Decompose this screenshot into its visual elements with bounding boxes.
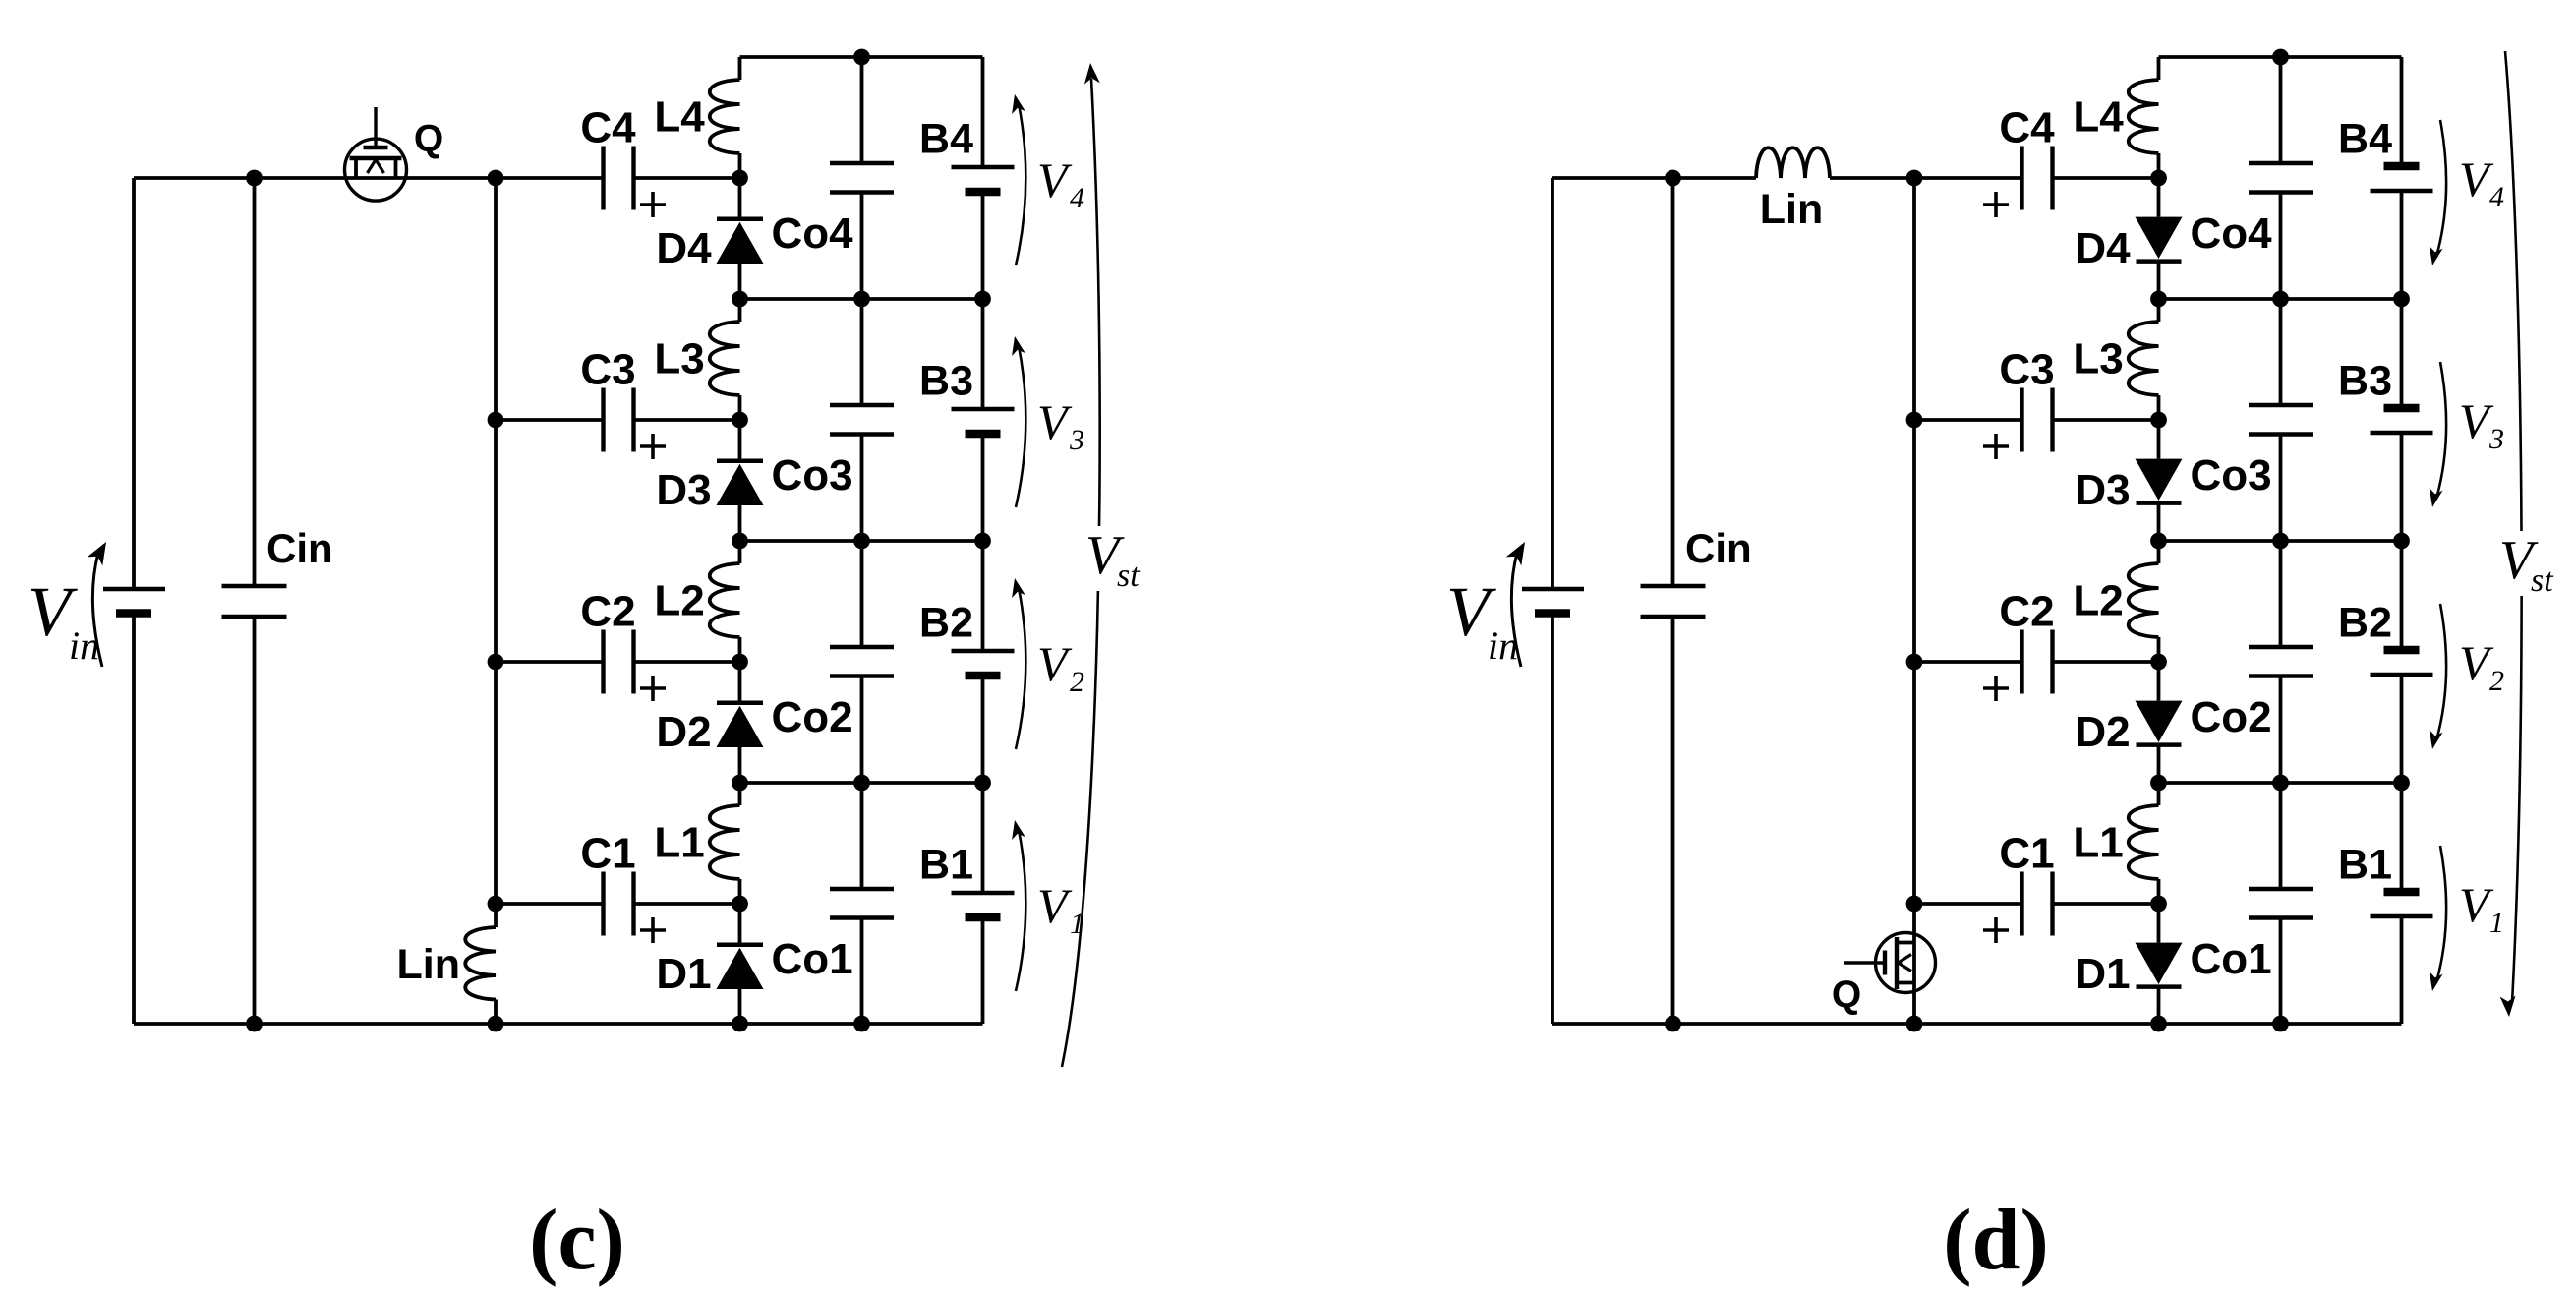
wire (d) Vin trunk upper — [1551, 178, 1554, 589]
arrow V4 (d) — [2436, 120, 2446, 257]
plus sign C2 (c) — [640, 686, 666, 690]
diode D3 (c) triangle — [717, 464, 764, 505]
node (d) row2 at Co — [2272, 533, 2289, 550]
diode D2 (d) triangle — [2136, 701, 2183, 742]
svg-text:C4: C4 — [580, 104, 636, 152]
node (d) row2 at LD — [2150, 533, 2167, 550]
wire (c) Co trunk seg above Co2 — [860, 435, 864, 648]
battery Vin (d) short plate — [1535, 609, 1570, 618]
wire (c) row st to C4 — [496, 176, 604, 180]
diode D2 (c) triangle — [717, 706, 764, 747]
wire (c) C1 row right — [634, 902, 740, 906]
inductor Lin (c) — [465, 927, 496, 1000]
svg-text:Co1: Co1 — [2190, 935, 2271, 983]
capacitor Cin (c) plates — [222, 584, 287, 588]
wire (d) D2-node — [2157, 745, 2161, 783]
transistor Q (d) circle — [1876, 933, 1936, 993]
svg-text:D3: D3 — [656, 466, 711, 514]
svg-text:D4: D4 — [656, 224, 712, 272]
battery B2 (d) long plate — [2371, 673, 2433, 677]
capacitor C3 (c) plates — [601, 388, 605, 452]
node (d) row1 at LD — [2150, 291, 2167, 308]
node (c) bottom at Co — [853, 1016, 870, 1032]
battery B2 (d) short plate — [2384, 646, 2420, 655]
plus sign C2 (d) — [1983, 686, 2009, 690]
svg-text:L2: L2 — [2073, 577, 2123, 625]
wire (d) node row 1 — [2159, 297, 2402, 301]
node (d) row2 at B — [2393, 533, 2410, 550]
wire (c) D3-node — [738, 505, 742, 541]
node (c) stage trunk top — [488, 170, 504, 187]
svg-text:(d): (d) — [1943, 1193, 2049, 1288]
wire (d) Cin trunk upper — [1671, 178, 1675, 586]
wire (d) C1 row right — [2053, 902, 2159, 906]
wire (c) D2-node — [738, 747, 742, 783]
arrow V3 (d) — [2436, 362, 2446, 499]
wire (c) bottom rail — [134, 1022, 983, 1026]
svg-text:Co4: Co4 — [2190, 209, 2272, 258]
transistor Q (d) gate bar — [1883, 951, 1887, 975]
wire (d) node row 3 — [2159, 781, 2402, 785]
capacitor C2 (c) plates — [601, 630, 605, 694]
battery B1 (d) long plate — [2371, 914, 2433, 918]
svg-text:st: st — [1117, 558, 1141, 594]
battery B4 (c) long plate — [952, 165, 1015, 169]
wire (c) C2 row right — [634, 660, 740, 664]
wire (d) L1-D1 — [2157, 879, 2161, 943]
svg-text:Q: Q — [414, 118, 443, 160]
inductor L1 (c) — [710, 805, 740, 879]
diode D4 (c) triangle — [717, 222, 764, 264]
svg-text:L3: L3 — [654, 335, 704, 383]
transistor Q (d) gate lead — [1844, 961, 1885, 964]
node (d) row3 at LD — [2150, 775, 2167, 792]
wire (c) B trunk bottom seg — [981, 917, 985, 1024]
diode D3 (d) cathode bar — [2137, 501, 2182, 505]
wire (d) L4-D4 — [2157, 153, 2161, 217]
node (c) bottom at Cin — [246, 1016, 263, 1032]
svg-text:B3: B3 — [919, 358, 973, 405]
svg-text:4: 4 — [2489, 181, 2504, 213]
wire (c) Co trunk seg above Co4 — [860, 57, 864, 163]
node (c) row2 at LD — [732, 533, 748, 550]
node (d) row1 at Co — [2272, 291, 2289, 308]
svg-text:D2: D2 — [2075, 708, 2130, 756]
capacitor Co1 (c) plates — [830, 887, 894, 891]
battery B1 (c) long plate — [952, 891, 1015, 895]
node (c) C2 row at stage trunk — [488, 654, 504, 671]
plus sign C4 (c) — [640, 203, 666, 206]
svg-text:B3: B3 — [2338, 358, 2392, 405]
transistor Q (c) circle — [345, 139, 407, 201]
arrow V2 (d) — [2436, 604, 2446, 740]
battery B4 (d) long plate — [2371, 189, 2433, 193]
capacitor C4 (d) plates — [2020, 147, 2023, 210]
svg-text:B1: B1 — [2338, 842, 2392, 889]
node (d) row1 at B — [2393, 291, 2410, 308]
wire (c) D1-node — [738, 989, 742, 1025]
battery B3 (c) long plate — [952, 407, 1015, 411]
svg-text:2: 2 — [2489, 665, 2504, 697]
diode D4 (d) cathode bar — [2137, 259, 2182, 264]
svg-text:C1: C1 — [1999, 830, 2054, 878]
svg-text:L4: L4 — [654, 93, 705, 142]
inductor Lin (d) — [1756, 147, 1830, 178]
svg-text:B2: B2 — [919, 600, 973, 647]
svg-text:C4: C4 — [1999, 104, 2055, 152]
svg-text:C1: C1 — [580, 830, 635, 878]
wire (c) B trunk seg above B2 — [981, 434, 985, 651]
transistor Q (c) source stub — [354, 158, 358, 178]
wire (c) B trunk seg above B3 — [981, 192, 985, 409]
node (c) row3 at B — [974, 775, 991, 792]
wire (d) trunk node-L3 — [2157, 299, 2161, 322]
arrow V2 (c) — [1016, 588, 1025, 749]
battery B3 (c) short plate — [966, 430, 1001, 439]
node (d) bottom at Cin — [1665, 1016, 1681, 1032]
wire (d) LD trunk top — [2157, 57, 2161, 80]
svg-text:L3: L3 — [2073, 335, 2123, 383]
svg-text:D1: D1 — [656, 950, 711, 998]
wire (d) input row left — [1552, 176, 1756, 180]
wire (c) stage trunk — [494, 178, 498, 927]
svg-text:Cin: Cin — [1685, 525, 1752, 571]
arrow V1 (d) — [2436, 846, 2446, 982]
wire (c) C3 row left — [496, 418, 604, 422]
node (c) row3 at LD — [732, 775, 748, 792]
wire (c) L3-D3 — [738, 395, 742, 463]
battery Vin (c) short plate — [116, 609, 151, 618]
node (d) C3 row at LD trunk — [2150, 412, 2167, 429]
capacitor C3 (d) plates — [2020, 388, 2023, 452]
transistor Q (d) body arrow — [1899, 955, 1912, 964]
node (d) bottom at LD — [2150, 1016, 2167, 1032]
wire (c) Cin trunk lower — [253, 617, 257, 1024]
svg-text:Cin: Cin — [266, 525, 333, 571]
wire (d) D3-node — [2157, 503, 2161, 541]
svg-text:L4: L4 — [2073, 93, 2124, 142]
svg-text:B1: B1 — [919, 842, 973, 889]
node (d) C4 row at LD trunk — [2150, 170, 2167, 187]
wire (c) Cin trunk upper — [253, 178, 257, 586]
plus sign C3 (d) — [1983, 444, 2009, 448]
inductor L1 (d) — [2129, 805, 2159, 879]
node (c) C1 row at stage trunk — [488, 896, 504, 913]
node (d) top rail at Co — [2272, 49, 2289, 66]
wire (c) Co trunk seg above Co3 — [860, 193, 864, 406]
node (d) bottom at Co — [2272, 1016, 2289, 1032]
wire (c) node row 2 — [740, 539, 983, 543]
arrow Vst (c) — [1062, 79, 1100, 1067]
wire (d) Co trunk seg above Co2 — [2279, 435, 2283, 648]
node (d) stage trunk top — [1906, 170, 1923, 187]
transistor Q (c) gate lead — [374, 107, 377, 147]
wire (c) stage trunk below Lin — [494, 1000, 498, 1025]
svg-text:2: 2 — [1070, 666, 1084, 698]
wire (c) B trunk seg above B1 — [981, 676, 985, 893]
svg-text:L2: L2 — [654, 577, 704, 625]
battery B2 (c) long plate — [952, 649, 1015, 653]
svg-text:C3: C3 — [580, 346, 635, 394]
wire (d) L2-D2 — [2157, 637, 2161, 701]
node (c) bottom at LD — [732, 1016, 748, 1032]
svg-text:Lin: Lin — [397, 941, 460, 988]
transistor Q (c) drain stub — [394, 158, 398, 178]
svg-text:1: 1 — [2489, 907, 2504, 939]
svg-text:3: 3 — [2488, 423, 2504, 455]
wire (d) B trunk seg above B2 — [2400, 433, 2404, 650]
wire (c) Co trunk seg above Co1 — [860, 677, 864, 890]
node (d) C2 row at LD trunk — [2150, 654, 2167, 671]
wire (c) trunk node-L2 — [738, 541, 742, 563]
battery B4 (d) short plate — [2384, 162, 2420, 171]
transistor Q (d) channel bar — [1895, 937, 1899, 989]
battery B2 (c) short plate — [966, 672, 1001, 680]
node (d) C3 row at stage trunk — [1906, 412, 1923, 429]
capacitor Co3 (c) plates — [830, 403, 894, 407]
svg-text:D4: D4 — [2075, 224, 2131, 272]
transistor Q (d) source stub — [1897, 981, 1914, 985]
capacitor Co3 (d) plates — [2249, 403, 2313, 407]
battery B3 (d) long plate — [2371, 431, 2433, 435]
wire (c) B trunk seg above B4 — [981, 57, 985, 167]
wire (c) C2 row left — [496, 660, 604, 664]
diode D1 (d) cathode bar — [2137, 984, 2182, 989]
capacitor C4 (c) plates — [601, 147, 605, 210]
wire (d) B trunk seg above B3 — [2400, 191, 2404, 408]
inductor L4 (d) — [2129, 80, 2159, 153]
node (d) bottom at stage trunk — [1906, 1016, 1923, 1032]
svg-text:C3: C3 — [1999, 346, 2054, 394]
battery B1 (d) short plate — [2384, 888, 2420, 897]
wire (d) top rail — [2159, 55, 2402, 59]
plus sign C4 (d) — [1983, 203, 2009, 206]
node (c) C1 row at LD trunk — [732, 896, 748, 913]
svg-text:3: 3 — [1069, 424, 1084, 456]
wire (c) L1-D1 — [738, 879, 742, 947]
svg-text:C2: C2 — [1999, 588, 2054, 636]
wire (d) Cin trunk lower — [1671, 617, 1675, 1024]
wire (c) Vin trunk upper — [132, 178, 136, 589]
node (c) top rail at Co — [853, 49, 870, 66]
wire (d) trunk node-L1 — [2157, 783, 2161, 805]
diode D3 (d) triangle — [2136, 459, 2183, 501]
capacitor C1 (d) plates — [2020, 872, 2023, 936]
node (c) row2 at Co — [853, 533, 870, 550]
arrow V1 (c) — [1016, 830, 1025, 991]
node (c) C2 row at LD trunk — [732, 654, 748, 671]
capacitor Cin (d) plates — [1641, 584, 1706, 588]
wire (c) C3 row right — [634, 418, 740, 422]
capacitor Co4 (c) plates — [830, 161, 894, 165]
battery Vin (c) long plate — [103, 587, 165, 591]
wire (c) LD trunk top — [738, 57, 742, 80]
wire (d) Co trunk seg above Co1 — [2279, 677, 2283, 890]
transistor Q (c) channel bar — [350, 156, 402, 160]
wire (c) node row 1 — [740, 297, 983, 301]
diode D4 (d) triangle — [2136, 217, 2183, 259]
transistor Q (c) body arrow — [368, 160, 377, 174]
wire (c) trunk node-L3 — [738, 299, 742, 322]
wire (c) input row — [134, 176, 496, 180]
node (c) C4 row at LD trunk — [732, 170, 748, 187]
wire (d) C2 row left — [1914, 660, 2022, 664]
wire (d) D1-node — [2157, 987, 2161, 1025]
capacitor Co4 (d) plates — [2249, 161, 2313, 165]
capacitor Co2 (c) plates — [830, 645, 894, 649]
svg-text:L1: L1 — [654, 819, 704, 867]
wire (c) top rail — [740, 55, 983, 59]
svg-text:B4: B4 — [919, 116, 973, 163]
svg-text:(c): (c) — [529, 1193, 625, 1288]
diode D1 (d) triangle — [2136, 943, 2183, 984]
wire (d) bottom rail — [1552, 1022, 2402, 1026]
wire (c) node row 3 — [740, 781, 983, 785]
node (c) row1 at B — [974, 291, 991, 308]
node (c) row1 at Co — [853, 291, 870, 308]
svg-text:4: 4 — [1070, 182, 1084, 214]
diode D2 (c) cathode bar — [717, 700, 763, 705]
node (c) row1 at LD — [732, 291, 748, 308]
arrow V3 (c) — [1016, 346, 1025, 507]
wire (d) Co trunk seg above Co3 — [2279, 193, 2283, 406]
wire (d) B trunk seg above B4 — [2400, 57, 2404, 166]
wire (d) C3 row left — [1914, 418, 2022, 422]
wire (c) D4-node — [738, 264, 742, 299]
capacitor C2 (d) plates — [2020, 630, 2023, 694]
label Vst (c) background — [1080, 526, 1144, 591]
node (d) C1 row at stage trunk — [1906, 896, 1923, 913]
arrow Vin (d) — [1511, 553, 1521, 667]
node (c) Cin top — [246, 170, 263, 187]
wire (d) Vin trunk lower — [1551, 614, 1554, 1025]
inductor L2 (d) — [2129, 563, 2159, 637]
wire (c) trunk node-L1 — [738, 783, 742, 805]
wire (d) C3 row right — [2053, 418, 2159, 422]
svg-text:D3: D3 — [2075, 466, 2130, 514]
wire (d) D4-node — [2157, 262, 2161, 299]
battery B1 (c) short plate — [966, 913, 1001, 922]
diode D3 (c) cathode bar — [717, 458, 763, 463]
diode D1 (c) triangle — [717, 948, 764, 989]
wire (d) stage trunk — [1912, 178, 1916, 1024]
node (c) row2 at B — [974, 533, 991, 550]
svg-text:B4: B4 — [2338, 116, 2392, 163]
wire (c) Vin trunk lower — [132, 614, 136, 1025]
svg-text:C2: C2 — [580, 588, 635, 636]
wire (d) node row 2 — [2159, 539, 2402, 543]
capacitor C1 (c) plates — [601, 872, 605, 936]
inductor L4 (c) — [710, 80, 740, 153]
arrow V4 (c) — [1016, 104, 1025, 265]
svg-text:Co4: Co4 — [771, 209, 853, 258]
node (c) bottom at stage trunk — [488, 1016, 504, 1032]
wire (c) L2-D2 — [738, 637, 742, 705]
wire (d) Co trunk seg above Co4 — [2279, 57, 2283, 163]
node (c) C3 row at stage trunk — [488, 412, 504, 429]
battery B3 (d) short plate — [2384, 404, 2420, 413]
battery B4 (c) short plate — [966, 188, 1001, 197]
node (d) row3 at B — [2393, 775, 2410, 792]
inductor L3 (d) — [2129, 322, 2159, 395]
wire (d) L3-D3 — [2157, 395, 2161, 459]
wire (d) trunk node-L2 — [2157, 541, 2161, 563]
wire (d) B trunk seg above B1 — [2400, 675, 2404, 892]
transistor Q (c) gate bar — [364, 146, 388, 149]
node (d) row3 at Co — [2272, 775, 2289, 792]
svg-text:B2: B2 — [2338, 600, 2392, 647]
transistor Q (d) drain stub — [1897, 941, 1914, 945]
wire (d) C1 row left — [1914, 902, 2022, 906]
plus sign C1 (d) — [1983, 928, 2009, 932]
plus sign C3 (c) — [640, 444, 666, 448]
wire (d) B trunk bottom seg — [2400, 916, 2404, 1024]
wire (d) C4 row right — [2053, 176, 2159, 180]
wire (d) C2 row right — [2053, 660, 2159, 664]
plus sign C1 (c) — [640, 928, 666, 932]
svg-text:Co2: Co2 — [771, 693, 852, 741]
svg-text:L1: L1 — [2073, 819, 2123, 867]
capacitor Co1 (d) plates — [2249, 887, 2313, 891]
capacitor Co2 (d) plates — [2249, 645, 2313, 649]
arrow Vin (c) — [92, 553, 102, 667]
svg-text:Lin: Lin — [1760, 186, 1823, 233]
svg-text:D1: D1 — [2075, 950, 2130, 998]
node (d) C1 row at LD trunk — [2150, 896, 2167, 913]
svg-text:Q: Q — [1832, 974, 1861, 1017]
wire (c) C4 row right — [634, 176, 740, 180]
battery Vin (d) long plate — [1522, 587, 1584, 591]
diode D2 (d) cathode bar — [2137, 742, 2182, 747]
node (d) Cin top — [1665, 170, 1681, 187]
diode D4 (c) cathode bar — [717, 216, 763, 221]
wire (d) Co trunk bottom seg — [2279, 918, 2283, 1025]
wire (c) L4-D4 — [738, 153, 742, 221]
svg-text:D2: D2 — [656, 708, 711, 756]
node (c) C3 row at LD trunk — [732, 412, 748, 429]
wire (c) C1 row left — [496, 902, 604, 906]
wire (c) Co trunk bottom seg — [860, 918, 864, 1025]
diode D1 (c) cathode bar — [717, 942, 763, 947]
svg-text:Co2: Co2 — [2190, 693, 2271, 741]
inductor L3 (c) — [710, 322, 740, 395]
inductor L2 (c) — [710, 563, 740, 637]
svg-text:Co3: Co3 — [2190, 451, 2271, 500]
arrow Vst (d) — [2505, 51, 2522, 1003]
svg-text:Co1: Co1 — [771, 935, 852, 983]
node (d) C2 row at stage trunk — [1906, 654, 1923, 671]
wire (d) input row right — [1830, 176, 2022, 180]
node (c) row3 at Co — [853, 775, 870, 792]
label Vst (d) background — [2495, 531, 2560, 596]
svg-text:st: st — [2531, 562, 2554, 599]
svg-text:Co3: Co3 — [771, 451, 852, 500]
